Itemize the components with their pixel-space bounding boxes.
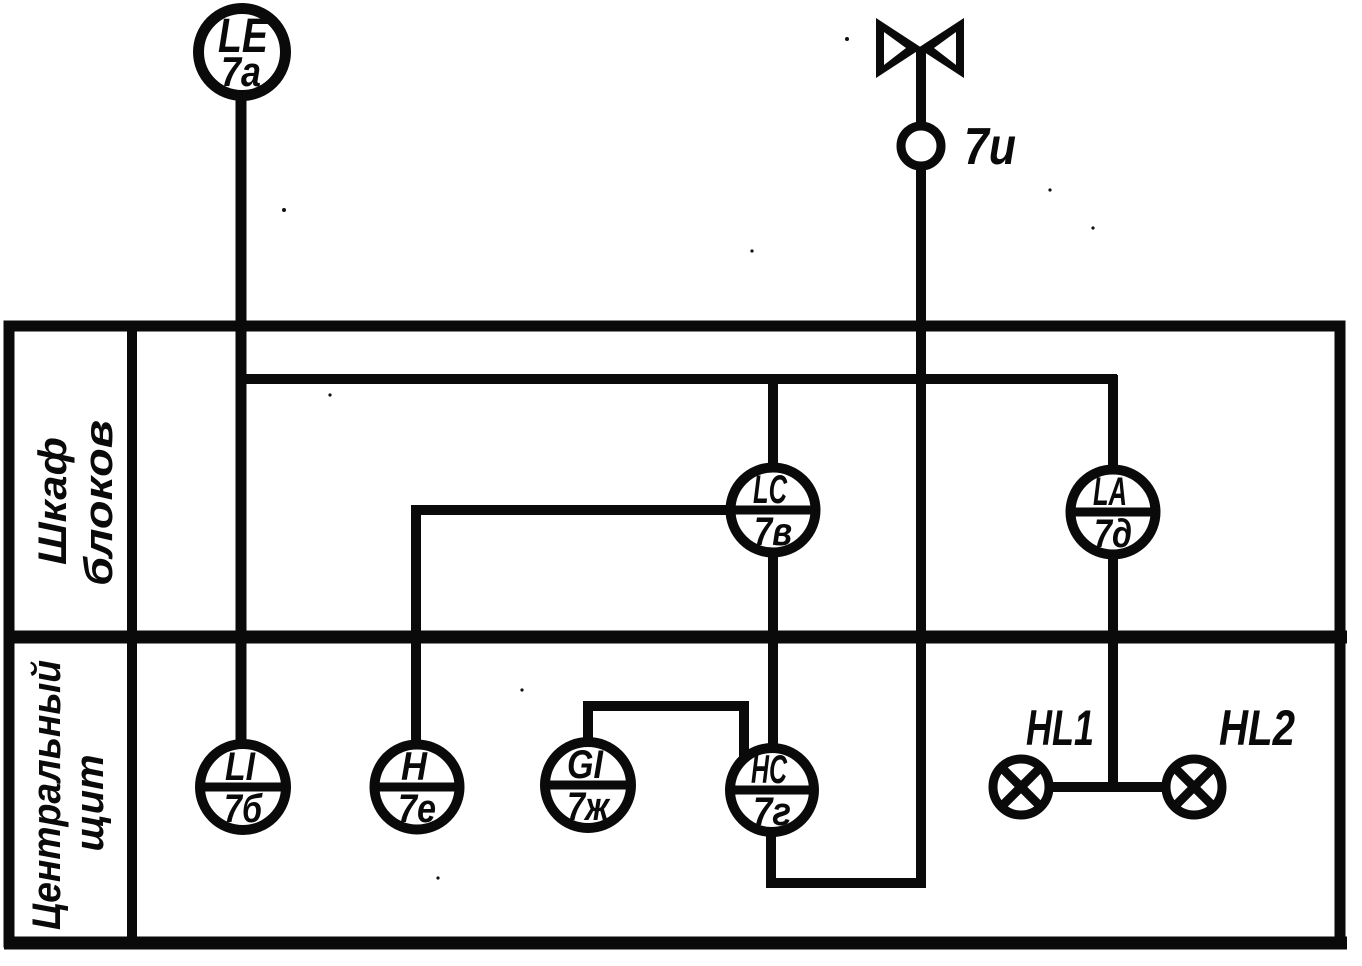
svg-text:GI: GI bbox=[567, 743, 604, 787]
svg-text:7г: 7г bbox=[753, 790, 791, 834]
svg-text:7е: 7е bbox=[398, 787, 436, 831]
svg-text:7б: 7б bbox=[224, 787, 263, 831]
svg-text:7а: 7а bbox=[221, 48, 261, 95]
svg-text:7д: 7д bbox=[1094, 512, 1132, 556]
svg-text:7и: 7и bbox=[964, 118, 1016, 176]
svg-text:Центральный: Центральный bbox=[25, 660, 69, 930]
svg-text:H: H bbox=[401, 745, 428, 789]
svg-text:LA: LA bbox=[1093, 470, 1127, 514]
svg-text:HL1: HL1 bbox=[1026, 700, 1094, 756]
svg-text:HL2: HL2 bbox=[1219, 700, 1295, 756]
svg-text:LI: LI bbox=[225, 745, 256, 789]
svg-text:HC: HC bbox=[751, 748, 788, 792]
svg-text:7в: 7в bbox=[754, 510, 792, 554]
svg-text:Шкаф: Шкаф bbox=[31, 437, 75, 565]
svg-text:LC: LC bbox=[753, 468, 788, 512]
svg-text:7ж: 7ж bbox=[567, 785, 611, 829]
svg-text:щит: щит bbox=[68, 755, 112, 852]
svg-text:блоков: блоков bbox=[77, 420, 121, 586]
